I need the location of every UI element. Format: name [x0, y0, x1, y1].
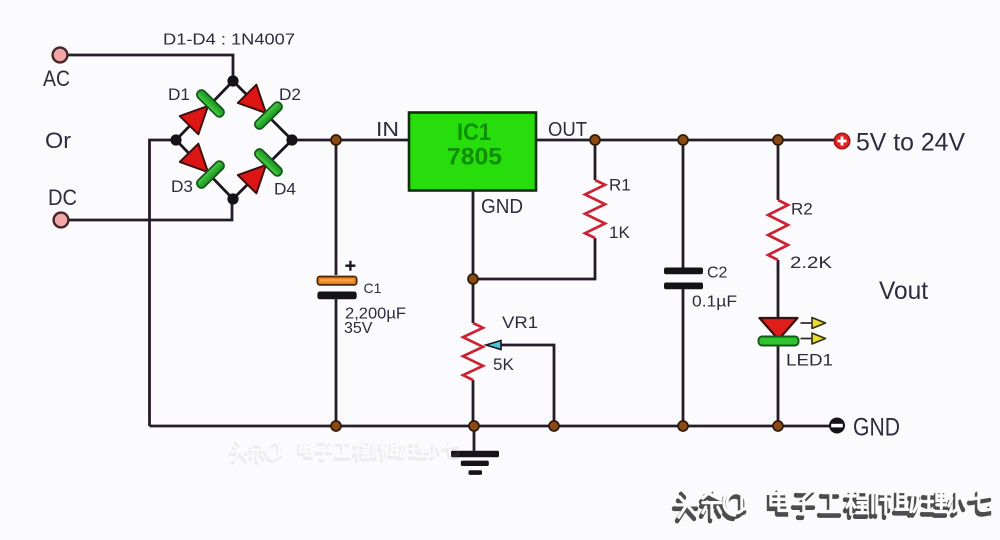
wire R2 to LED — [777, 260, 780, 318]
IC1 7805 regulator body — [409, 113, 536, 191]
wire DC terminal to bridge bottom — [68, 201, 232, 220]
svg-text:D2: D2 — [279, 85, 301, 104]
watermark bottom right — [674, 489, 991, 521]
junction node OUT rail at R1 — [590, 135, 600, 145]
capacitor C1 plate - — [317, 292, 356, 300]
plus output terminal — [834, 133, 850, 149]
wire IC GND pin — [472, 191, 475, 279]
faint ghost watermark bottom left — [230, 440, 458, 463]
potentiometer VR1 wiper arrow — [486, 341, 501, 350]
LED1 light arrow lower — [801, 333, 826, 344]
svg-text:7805: 7805 — [447, 144, 502, 171]
bridge diamond wires — [176, 81, 292, 199]
AC input terminal — [53, 48, 68, 63]
svg-text:LED1: LED1 — [786, 351, 833, 370]
wire C2 lower — [682, 289, 685, 426]
svg-text:D1-D4 : 1N4007: D1-D4 : 1N4007 — [163, 32, 295, 49]
LED1 light arrow upper — [801, 318, 826, 329]
bridge node left — [170, 134, 181, 145]
svg-text:5V to 24V: 5V to 24V — [856, 129, 965, 157]
GND output terminal — [829, 418, 845, 434]
svg-text:D3: D3 — [171, 177, 193, 196]
svg-text:IN: IN — [376, 119, 399, 141]
C1 plus sign — [345, 261, 355, 271]
LED1 triangle — [760, 318, 798, 340]
capacitor C2 plate bottom — [664, 283, 703, 290]
svg-text:R1: R1 — [609, 176, 631, 195]
wire R1 top — [594, 140, 597, 180]
junction node on IN rail at C1 — [331, 135, 341, 145]
wire VR1 bottom — [472, 380, 475, 426]
junction node rail at VR1 — [469, 421, 479, 431]
junction node OUT rail at R2 — [773, 135, 783, 145]
diode D4 — [235, 147, 284, 196]
resistor R2 zigzag — [768, 200, 788, 260]
capacitor C2 plate top — [664, 268, 703, 275]
svg-text:5K: 5K — [493, 355, 514, 374]
ground symbol — [451, 451, 499, 475]
junction node GND net below IC — [468, 274, 478, 284]
svg-text:0.1µF: 0.1µF — [692, 294, 737, 311]
wire VR1 top — [472, 279, 475, 323]
diode D1 — [177, 88, 226, 137]
junction node rail at LED — [773, 421, 783, 431]
resistor R1 zigzag — [585, 180, 605, 238]
bridge node right — [286, 134, 297, 145]
junction node rail at wiper — [549, 421, 559, 431]
diode D3 — [177, 141, 226, 190]
wire C1 lower — [335, 299, 338, 426]
svg-text:AC: AC — [43, 66, 70, 91]
wire VR1 wiper to rail — [501, 345, 554, 426]
wire IC OUT to plus terminal — [536, 139, 836, 142]
wire C2 upper — [682, 140, 685, 268]
wire R1 bottom to GND node — [473, 238, 595, 279]
bridge node top — [227, 75, 238, 86]
diode D2 — [235, 82, 284, 131]
wire bridge right node to IC IN — [292, 139, 409, 142]
svg-text:D4: D4 — [274, 180, 296, 199]
wire R2 top — [777, 140, 780, 200]
svg-text:C1: C1 — [364, 280, 382, 296]
svg-text:D1: D1 — [168, 85, 190, 104]
svg-text:Or: Or — [45, 128, 71, 153]
junction node rail at C1 — [331, 421, 341, 431]
potentiometer VR1 zigzag — [463, 323, 483, 380]
svg-text:VR1: VR1 — [502, 313, 538, 332]
wire bottom ground rail — [150, 425, 831, 428]
svg-text:GND: GND — [853, 414, 900, 442]
capacitor C1 plate + — [317, 277, 356, 285]
junction node rail at C2 — [678, 421, 688, 431]
wire ground stub — [473, 426, 476, 451]
wire bridge left node to left drop — [150, 140, 177, 426]
wire C1 upper — [335, 140, 338, 275]
svg-text:2.2K: 2.2K — [790, 253, 833, 272]
junction node OUT rail at C2 — [678, 135, 688, 145]
bridge node bottom — [227, 193, 238, 204]
svg-text:C2: C2 — [707, 265, 728, 282]
svg-text:R2: R2 — [791, 200, 813, 219]
wire AC terminal to bridge top — [67, 55, 233, 78]
svg-text:OUT: OUT — [548, 119, 587, 141]
svg-text:DC: DC — [48, 185, 77, 210]
svg-text:Vout: Vout — [879, 277, 928, 305]
svg-text:IC1: IC1 — [457, 119, 491, 146]
svg-text:GND: GND — [481, 196, 523, 218]
svg-text:35V: 35V — [344, 320, 373, 337]
svg-text:1K: 1K — [609, 223, 630, 242]
wire LED to rail — [777, 345, 780, 426]
LED1 cathode bar — [759, 337, 799, 346]
DC input terminal — [54, 213, 69, 228]
